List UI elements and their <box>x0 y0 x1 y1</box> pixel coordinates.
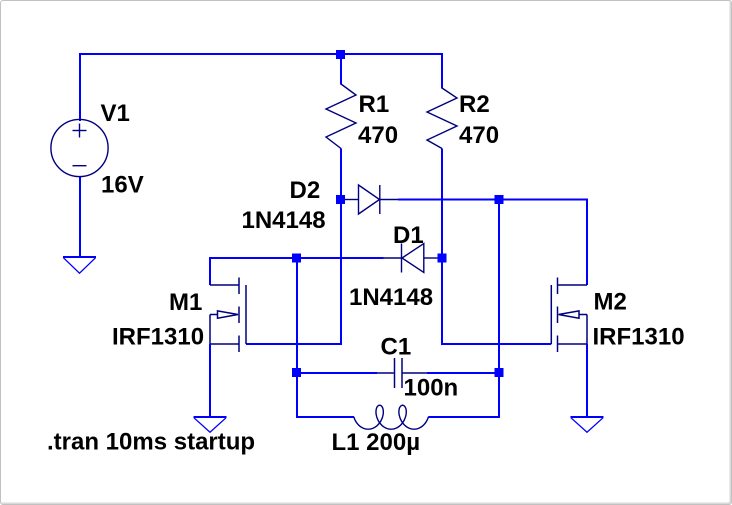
wire top rail V+ <box>79 53 443 55</box>
svg-text:100n: 100n <box>404 375 459 402</box>
wire D1 anode junction down to M2 gate <box>441 258 443 345</box>
mosfet M1 <box>210 278 246 353</box>
wire M1 gate horizontal <box>246 343 342 345</box>
voltage source V1 <box>51 119 108 176</box>
svg-text:1N4148: 1N4148 <box>242 207 326 234</box>
diode D2 <box>345 185 398 214</box>
wire M1 drain vertical <box>209 257 211 285</box>
ground (M1) <box>194 417 227 432</box>
wire V1 bottom to ground <box>79 176 81 257</box>
wire M1 drain node row <box>210 257 384 259</box>
resistor R2 <box>427 88 457 149</box>
junction node drain1 wire / C1 left branch <box>292 254 301 263</box>
wire R1 top lead <box>340 54 342 85</box>
svg-text:470: 470 <box>358 122 398 149</box>
svg-text:C1: C1 <box>381 334 412 361</box>
inductor L1 <box>354 405 429 429</box>
wire C1 right lead <box>427 372 499 374</box>
wire R1/D2 node down to M1 gate <box>340 200 342 346</box>
wire C1 left lead <box>297 372 377 374</box>
ground (M2) <box>571 417 604 432</box>
junction node R1 bottom / D2 anode <box>336 195 345 204</box>
junction node D1 anode / R2 bottom <box>438 254 447 263</box>
wire M2 gate horizontal <box>441 343 551 345</box>
svg-text:R1: R1 <box>359 91 390 118</box>
wire M2 drain vertical <box>586 199 588 286</box>
svg-text:R2: R2 <box>459 91 490 118</box>
wire R2 top lead <box>441 53 443 89</box>
svg-text:470: 470 <box>459 122 499 149</box>
svg-text:.tran 10ms startup: .tran 10ms startup <box>47 429 255 456</box>
junction node C1 right / L1 right <box>495 368 504 377</box>
svg-text:M2: M2 <box>594 289 627 316</box>
wire V1 top vertical <box>79 53 81 121</box>
wire D2 cathode to M2 drain corner <box>398 199 588 201</box>
svg-text:IRF1310: IRF1310 <box>112 324 204 351</box>
junction node C1 left / L1 left <box>292 368 301 377</box>
mosfet M2 <box>551 278 587 353</box>
svg-text:1N4148: 1N4148 <box>349 284 433 311</box>
svg-text:16V: 16V <box>101 172 144 199</box>
junction node drain2 wire / C1 right branch <box>495 195 504 204</box>
wire drain1 node down through C1 left to L1 left <box>296 257 298 418</box>
diode D1 <box>384 244 439 273</box>
resistor R1 <box>326 84 356 149</box>
wire R2 bottom through crossover to D1 anode junction <box>441 149 443 259</box>
wire drain node down to C1 right <box>498 199 500 419</box>
ground (V1) <box>63 257 96 273</box>
wire L1 left lead <box>296 416 354 418</box>
svg-text:IRF1310: IRF1310 <box>593 324 685 351</box>
svg-text:D2: D2 <box>290 177 321 204</box>
svg-text:D1: D1 <box>393 222 424 249</box>
wire R1 bottom lead <box>340 149 342 201</box>
junction node top rail / R1 <box>336 50 345 59</box>
capacitor C1 <box>377 358 427 388</box>
svg-text:M1: M1 <box>169 289 202 316</box>
svg-text:V1: V1 <box>101 100 130 127</box>
wire M2 source to ground <box>586 344 588 417</box>
svg-text:L1 200µ: L1 200µ <box>332 429 421 456</box>
wire M1 source to ground <box>209 344 211 417</box>
wire L1 right lead <box>428 416 500 418</box>
